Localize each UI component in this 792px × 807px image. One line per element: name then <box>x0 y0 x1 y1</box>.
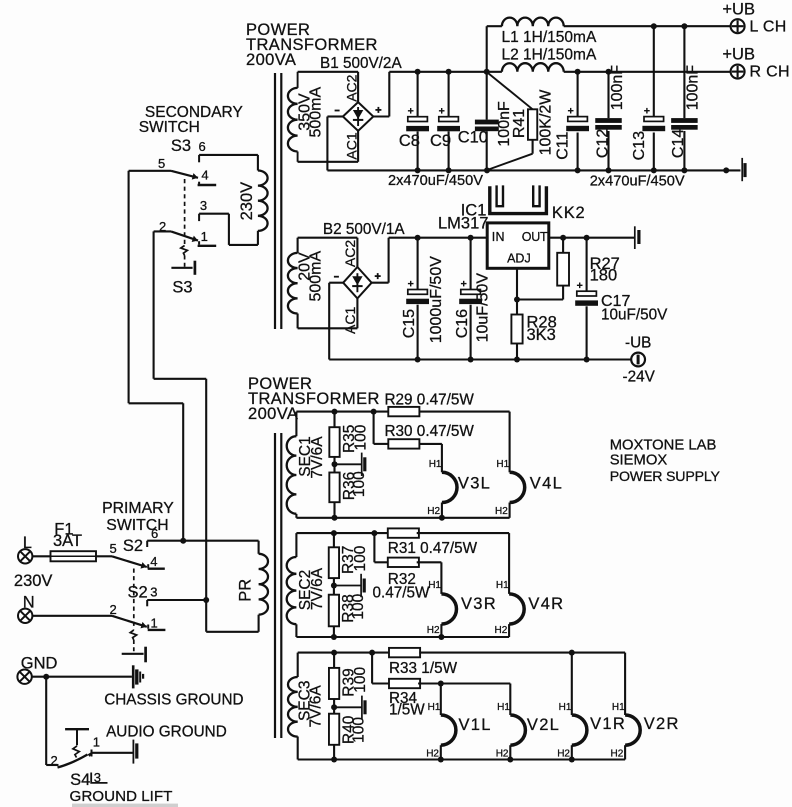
svg-text:2x470uF/450V: 2x470uF/450V <box>590 173 685 189</box>
svg-text:100nF: 100nF <box>685 65 702 111</box>
svg-text:C9: C9 <box>430 132 451 150</box>
svg-text:10uF/50V: 10uF/50V <box>601 307 668 324</box>
svg-text:C14: C14 <box>670 129 687 158</box>
svg-text:H1: H1 <box>497 702 510 713</box>
svg-text:100nF: 100nF <box>609 65 626 111</box>
svg-text:100: 100 <box>351 471 368 497</box>
svg-text:H2: H2 <box>557 748 570 759</box>
svg-text:OUT: OUT <box>522 230 548 244</box>
svg-text:H2: H2 <box>426 748 439 759</box>
svg-text:H1: H1 <box>496 580 509 591</box>
svg-text:KK2: KK2 <box>552 204 586 222</box>
svg-text:R30 0.47/5W: R30 0.47/5W <box>385 423 475 440</box>
svg-text:V1R: V1R <box>590 715 626 733</box>
svg-text:500mA: 500mA <box>307 87 324 138</box>
svg-text:3: 3 <box>200 198 207 213</box>
svg-text:H1: H1 <box>612 702 625 713</box>
svg-text:4: 4 <box>150 554 157 569</box>
svg-text:0.47/5W: 0.47/5W <box>373 584 431 601</box>
svg-text:C8: C8 <box>399 132 420 150</box>
svg-text:C16: C16 <box>454 309 471 338</box>
svg-text:C15: C15 <box>401 309 418 338</box>
svg-text:180: 180 <box>590 267 618 285</box>
svg-text:7V/6A: 7V/6A <box>309 567 326 610</box>
svg-text:V3L: V3L <box>458 475 491 493</box>
svg-text:L CH: L CH <box>750 19 787 36</box>
svg-text:500mA: 500mA <box>307 251 324 302</box>
svg-text:200VA: 200VA <box>248 405 298 423</box>
svg-text:C12: C12 <box>594 129 611 158</box>
svg-text:C11: C11 <box>555 132 572 160</box>
svg-text:LM317: LM317 <box>438 215 488 233</box>
svg-text:2: 2 <box>51 753 58 768</box>
svg-text:B1 500V/2A: B1 500V/2A <box>320 55 402 72</box>
svg-text:100: 100 <box>352 424 369 450</box>
svg-text:H2: H2 <box>495 625 508 636</box>
svg-text:+UB: +UB <box>722 45 755 63</box>
svg-text:B2 500V/1A: B2 500V/1A <box>323 221 405 238</box>
svg-text:AC1: AC1 <box>343 132 359 159</box>
svg-text:1: 1 <box>151 616 158 631</box>
svg-text:L1 1H/150mA: L1 1H/150mA <box>502 29 597 46</box>
svg-text:V4L: V4L <box>530 475 563 493</box>
svg-text:4: 4 <box>201 167 208 182</box>
svg-text:10uF/50V: 10uF/50V <box>475 273 492 343</box>
svg-text:MOXTONE LAB: MOXTONE LAB <box>610 437 717 453</box>
svg-text:SWITCH: SWITCH <box>139 119 200 136</box>
svg-text:H2: H2 <box>611 748 624 759</box>
svg-text:1: 1 <box>201 229 208 244</box>
svg-text:IN: IN <box>492 230 505 244</box>
svg-text:AC2: AC2 <box>342 240 358 267</box>
svg-text:R41: R41 <box>511 109 528 138</box>
svg-text:C13: C13 <box>631 131 648 160</box>
svg-text:1000uF/50V: 1000uF/50V <box>428 256 445 344</box>
svg-text:5: 5 <box>110 541 117 556</box>
svg-text:S2: S2 <box>123 537 143 555</box>
svg-text:S3: S3 <box>172 279 192 297</box>
svg-text:SWITCH: SWITCH <box>106 517 168 534</box>
svg-text:ADJ: ADJ <box>507 252 531 266</box>
svg-text:3AT: 3AT <box>53 532 82 550</box>
svg-text:S2: S2 <box>128 584 148 602</box>
svg-text:AUDIO GROUND: AUDIO GROUND <box>106 724 227 741</box>
svg-text:3K3: 3K3 <box>527 326 556 344</box>
svg-text:100: 100 <box>350 717 367 743</box>
svg-text:R31 0.47/5W: R31 0.47/5W <box>388 540 478 557</box>
svg-text:5: 5 <box>158 156 165 171</box>
svg-text:200VA: 200VA <box>246 51 296 69</box>
svg-text:R29 0.47/5W: R29 0.47/5W <box>385 392 475 409</box>
svg-text:6: 6 <box>199 139 206 154</box>
svg-text:GROUND LIFT: GROUND LIFT <box>70 788 173 805</box>
svg-text:230V: 230V <box>14 572 53 590</box>
svg-text:3: 3 <box>150 585 157 600</box>
svg-text:1: 1 <box>93 735 100 750</box>
svg-text:POWER SUPPLY: POWER SUPPLY <box>610 469 721 485</box>
svg-text:H1: H1 <box>428 580 441 591</box>
svg-text:H2: H2 <box>427 506 440 517</box>
svg-text:AC2: AC2 <box>343 74 359 101</box>
svg-text:100K/2W: 100K/2W <box>537 89 554 156</box>
svg-text:V1L: V1L <box>459 716 492 734</box>
svg-text:V4R: V4R <box>528 595 564 613</box>
svg-text:S3: S3 <box>171 137 191 155</box>
svg-text:H2: H2 <box>427 625 440 636</box>
svg-text:230V: 230V <box>238 182 256 221</box>
svg-text:H2: H2 <box>496 748 509 759</box>
svg-text:H1: H1 <box>496 459 509 470</box>
svg-text:-UB: -UB <box>625 335 651 352</box>
svg-text:7V/6A: 7V/6A <box>307 685 324 728</box>
svg-text:100: 100 <box>352 666 369 692</box>
svg-text:6: 6 <box>151 526 158 541</box>
svg-text:1/5W: 1/5W <box>389 702 425 719</box>
svg-text:H1: H1 <box>559 702 572 713</box>
svg-text:R33 1/5W: R33 1/5W <box>389 660 458 677</box>
svg-text:100: 100 <box>350 593 367 619</box>
svg-text:R CH: R CH <box>750 63 790 80</box>
svg-text:S4: S4 <box>70 771 90 789</box>
svg-text:2x470uF/450V: 2x470uF/450V <box>388 173 483 189</box>
svg-text:PR: PR <box>237 579 255 602</box>
svg-text:C10: C10 <box>458 128 488 146</box>
svg-text:CHASSIS GROUND: CHASSIS GROUND <box>104 691 243 708</box>
svg-text:V2R: V2R <box>644 715 680 733</box>
svg-text:V2L: V2L <box>527 716 560 734</box>
svg-text:H1: H1 <box>429 459 442 470</box>
svg-text:-24V: -24V <box>623 369 656 386</box>
svg-text:3: 3 <box>94 770 101 785</box>
svg-text:PRIMARY: PRIMARY <box>102 500 174 517</box>
svg-text:+UB: +UB <box>722 1 755 19</box>
svg-text:H2: H2 <box>495 506 508 517</box>
svg-text:H1: H1 <box>428 702 441 713</box>
svg-text:L2 1H/150mA: L2 1H/150mA <box>502 46 597 63</box>
svg-text:2: 2 <box>110 602 117 617</box>
svg-text:7V/6A: 7V/6A <box>309 436 326 479</box>
svg-text:V3R: V3R <box>461 595 497 613</box>
svg-text:AC1: AC1 <box>342 307 358 334</box>
svg-text:SIEMOX: SIEMOX <box>610 452 668 468</box>
svg-text:100: 100 <box>352 545 369 571</box>
